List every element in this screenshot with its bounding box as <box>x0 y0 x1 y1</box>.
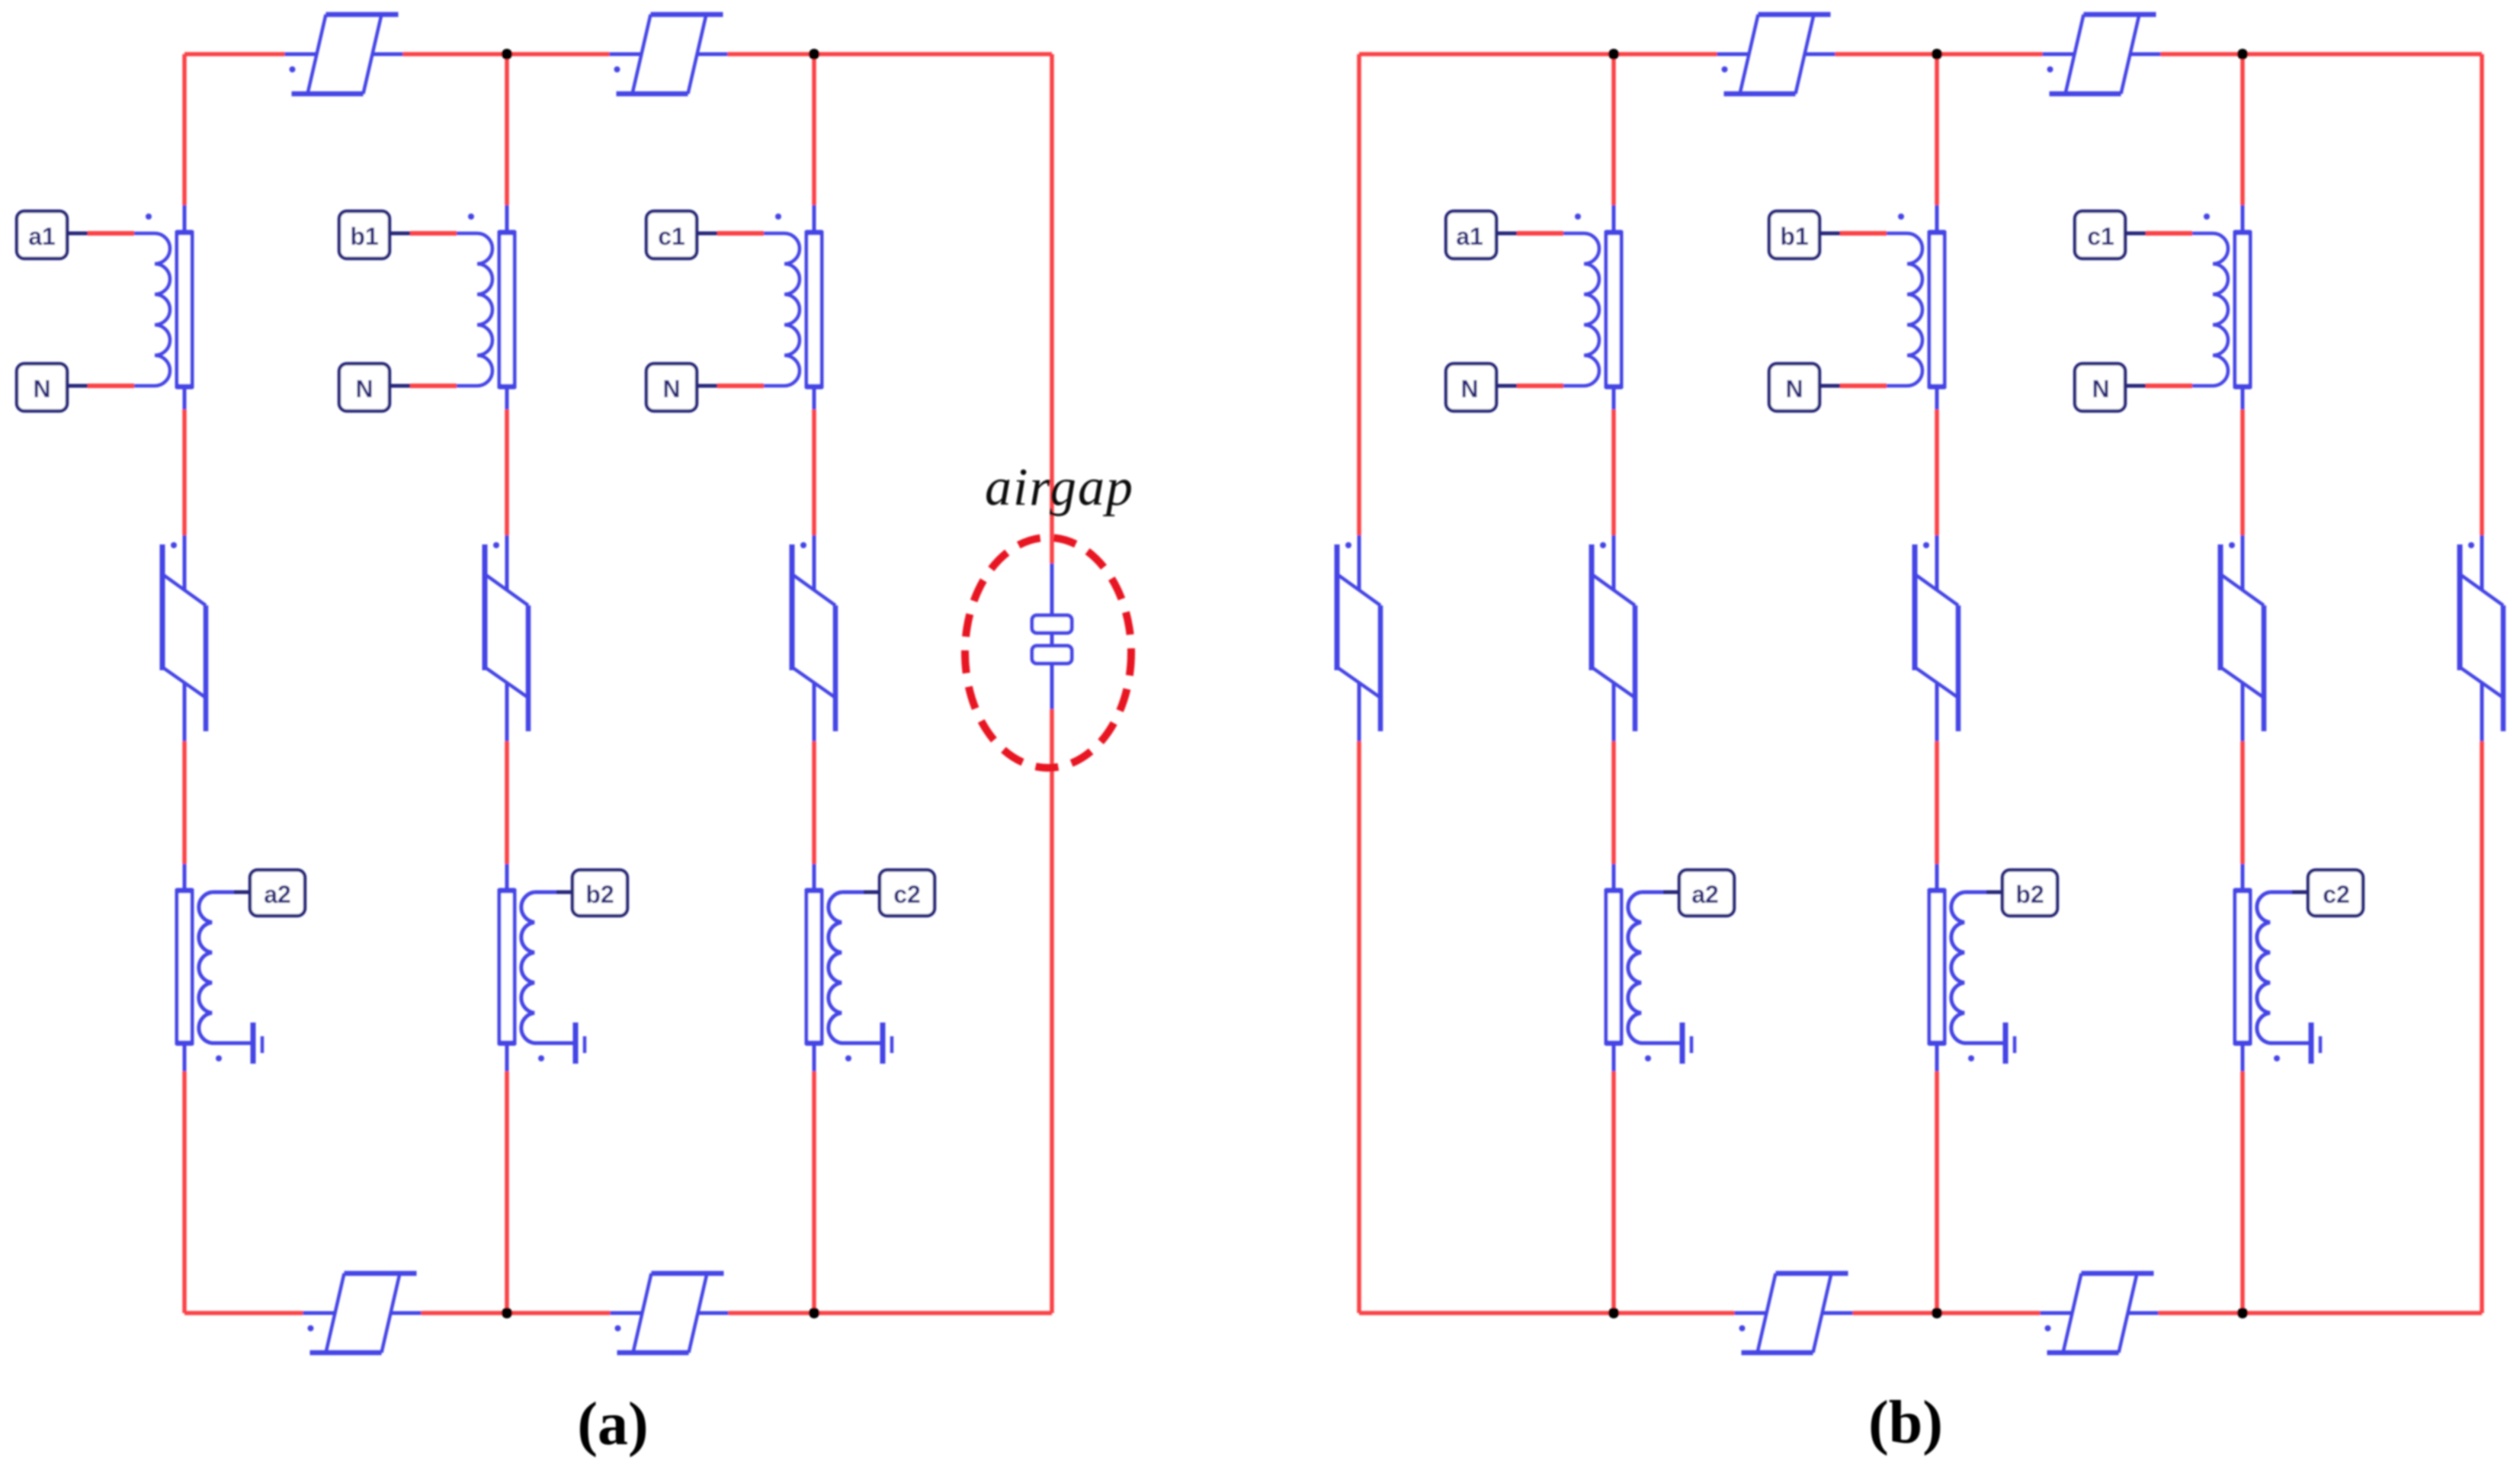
svg-text:N: N <box>33 375 50 403</box>
svg-text:a2: a2 <box>264 881 291 908</box>
svg-text:b1: b1 <box>1780 223 1808 250</box>
svg-text:N: N <box>355 375 373 403</box>
svg-text:N: N <box>1785 375 1803 403</box>
svg-text:N: N <box>1460 375 1478 403</box>
svg-text:(b): (b) <box>1868 1389 1943 1456</box>
svg-text:(a): (a) <box>577 1391 648 1458</box>
svg-text:c2: c2 <box>893 881 921 908</box>
svg-text:c1: c1 <box>2087 223 2114 250</box>
svg-text:a2: a2 <box>1691 881 1719 908</box>
svg-text:airgap: airgap <box>985 458 1134 517</box>
svg-text:N: N <box>662 375 680 403</box>
svg-text:N: N <box>2092 375 2109 403</box>
svg-text:c2: c2 <box>2323 881 2350 908</box>
svg-text:b2: b2 <box>585 881 614 908</box>
svg-text:a1: a1 <box>1456 223 1483 250</box>
svg-text:b1: b1 <box>350 223 378 250</box>
svg-text:b2: b2 <box>2015 881 2044 908</box>
svg-text:a1: a1 <box>28 223 56 250</box>
svg-text:c1: c1 <box>658 223 685 250</box>
